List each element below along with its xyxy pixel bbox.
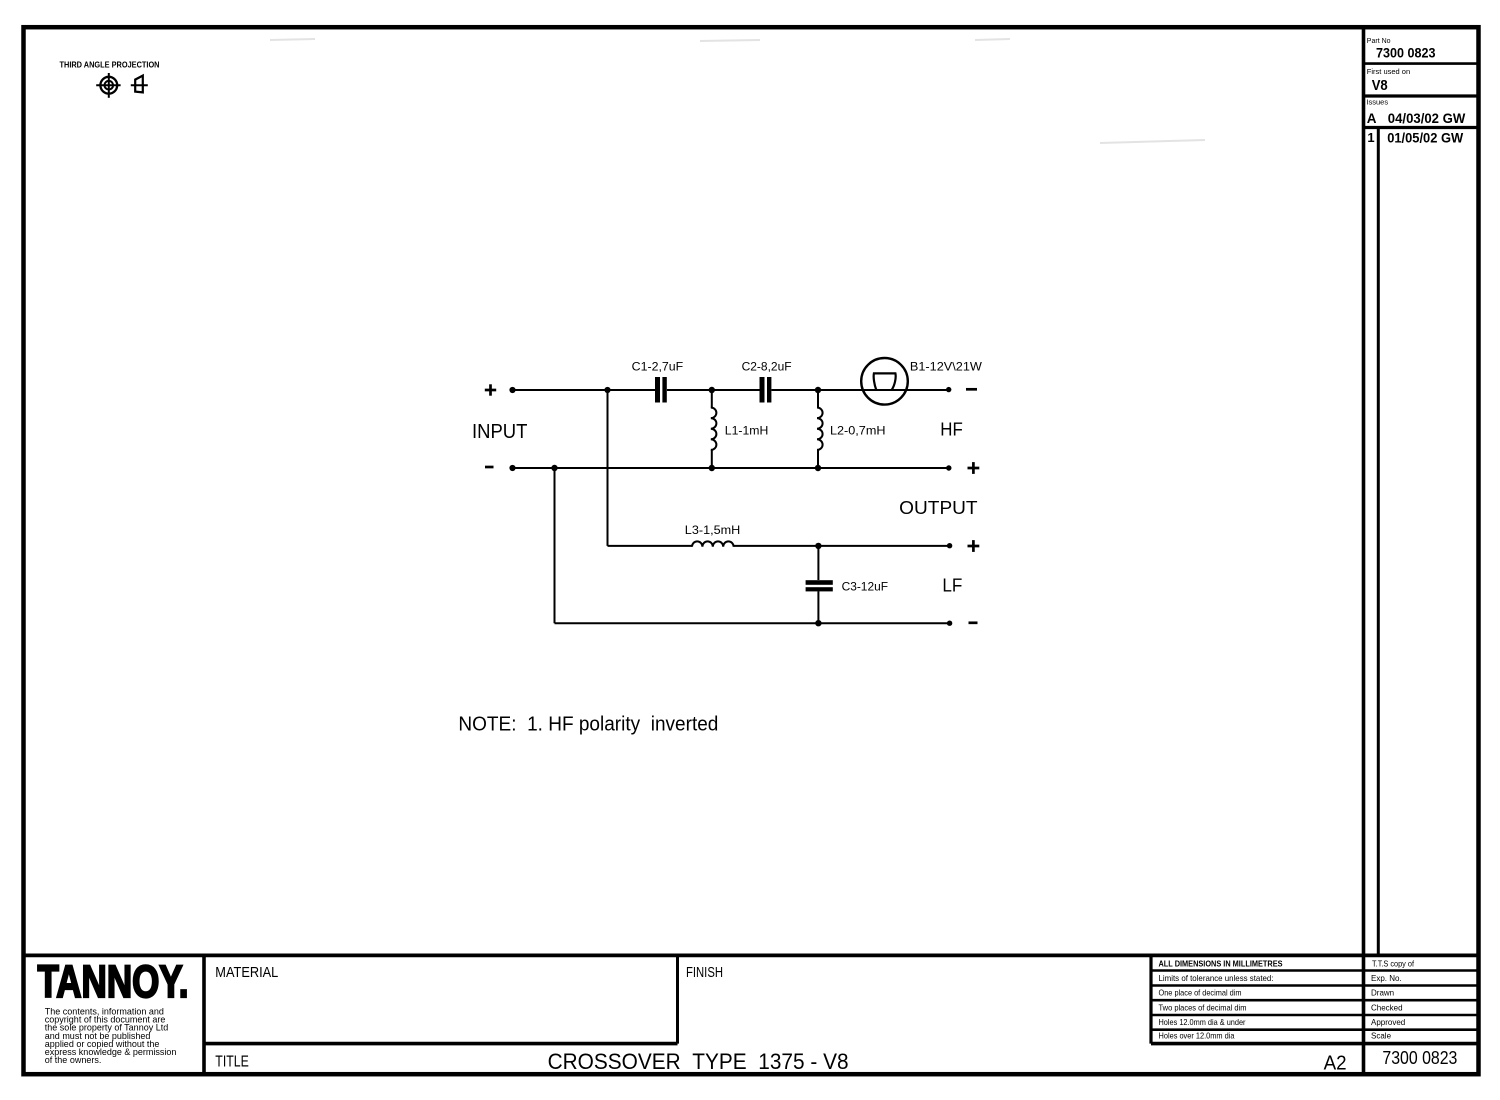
svg-text:First used on: First used on <box>1367 67 1410 76</box>
svg-text:T.T.S copy of: T.T.S copy of <box>1372 959 1415 968</box>
svg-text:Exp. No.: Exp. No. <box>1371 974 1402 983</box>
svg-text:Scale: Scale <box>1371 1032 1392 1041</box>
svg-text:INPUT: INPUT <box>472 421 527 443</box>
svg-text:Approved: Approved <box>1371 1018 1405 1027</box>
svg-text:ALL DIMENSIONS IN MILLIMETRES: ALL DIMENSIONS IN MILLIMETRES <box>1159 958 1283 968</box>
svg-text:Limits of tolerance unless sta: Limits of tolerance unless stated: <box>1159 973 1274 983</box>
svg-text:01/05/02 GW: 01/05/02 GW <box>1387 130 1464 146</box>
svg-text:CROSSOVER TYPE 1375 - V8: CROSSOVER TYPE 1375 - V8 <box>548 1049 849 1074</box>
svg-text:NOTE: 1. HF polarity inverte: NOTE: 1. HF polarity inverted <box>458 712 718 735</box>
svg-text:L3-1,5mH: L3-1,5mH <box>685 523 741 537</box>
svg-text:B1-12V\21W: B1-12V\21W <box>910 359 983 373</box>
svg-text:THIRD ANGLE PROJECTION: THIRD ANGLE PROJECTION <box>60 59 160 69</box>
svg-text:Holes 12.0mm dia & under: Holes 12.0mm dia & under <box>1159 1017 1246 1027</box>
svg-text:TITLE: TITLE <box>215 1054 249 1071</box>
svg-text:TANNOY.: TANNOY. <box>38 956 189 1007</box>
svg-text:Issues: Issues <box>1366 97 1388 106</box>
svg-text:HF: HF <box>940 420 963 440</box>
svg-text:C3-12uF: C3-12uF <box>842 579 888 593</box>
svg-text:One place of decimal dim: One place of decimal dim <box>1159 988 1242 998</box>
svg-text:FINISH: FINISH <box>686 965 723 981</box>
svg-text:of the owners.: of the owners. <box>45 1055 102 1065</box>
svg-text:OUTPUT: OUTPUT <box>899 498 977 518</box>
svg-text:Two places of decimal dim: Two places of decimal dim <box>1159 1002 1247 1012</box>
svg-text:7300 0823: 7300 0823 <box>1376 45 1436 61</box>
svg-text:A2: A2 <box>1324 1053 1347 1075</box>
svg-text:Checked: Checked <box>1371 1003 1403 1012</box>
svg-text:MATERIAL: MATERIAL <box>215 965 278 981</box>
svg-text:1: 1 <box>1367 130 1374 145</box>
svg-text:C1-2,7uF: C1-2,7uF <box>632 359 684 373</box>
svg-text:L1-1mH: L1-1mH <box>725 424 769 438</box>
svg-text:A: A <box>1367 111 1377 126</box>
svg-text:V8: V8 <box>1372 77 1388 94</box>
svg-text:C2-8,2uF: C2-8,2uF <box>742 359 792 373</box>
svg-text:Drawn: Drawn <box>1371 989 1394 998</box>
svg-text:04/03/02 GW: 04/03/02 GW <box>1388 110 1466 126</box>
svg-text:L2-0,7mH: L2-0,7mH <box>830 424 886 438</box>
svg-text:7300 0823: 7300 0823 <box>1382 1048 1457 1068</box>
svg-text:Holes over 12.0mm dia: Holes over 12.0mm dia <box>1159 1031 1235 1041</box>
svg-text:LF: LF <box>942 576 962 596</box>
